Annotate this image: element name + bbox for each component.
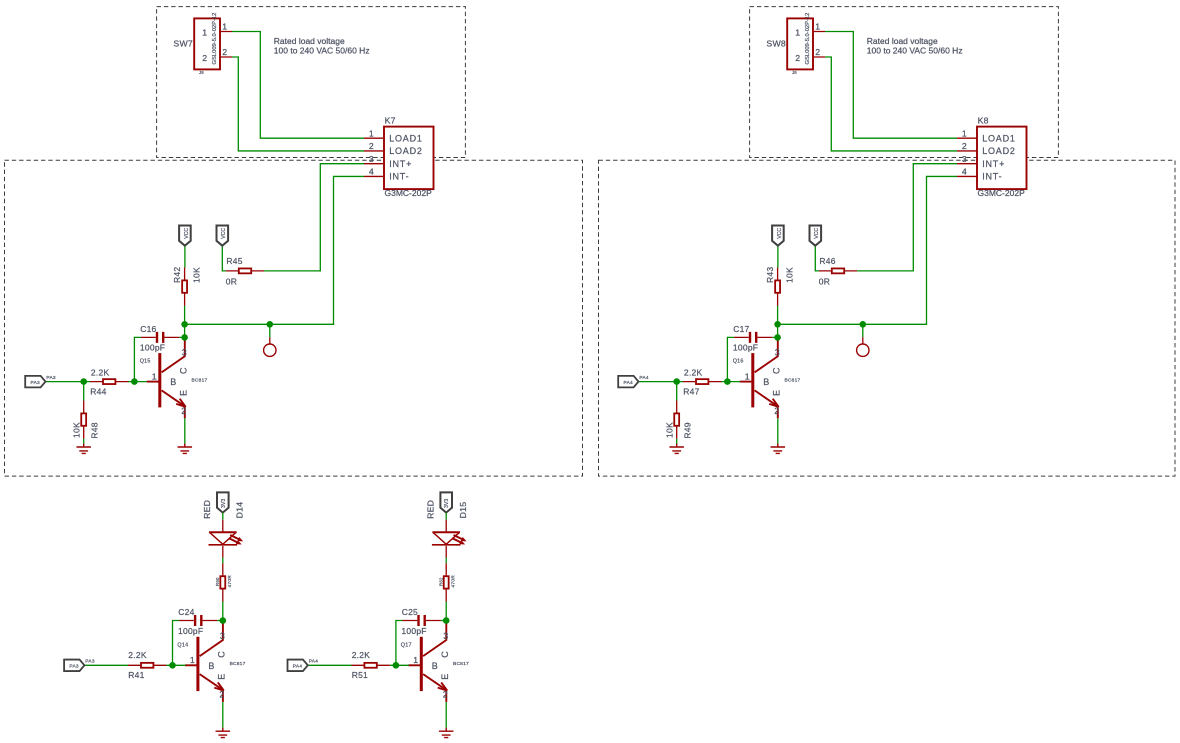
svg-text:LOAD1: LOAD1 xyxy=(982,134,1016,144)
svg-text:100 to 240 VAC 50/60 Hz: 100 to 240 VAC 50/60 Hz xyxy=(274,46,370,56)
svg-text:Rated load voltage: Rated load voltage xyxy=(274,36,345,46)
svg-text:470R: 470R xyxy=(227,575,233,588)
svg-text:RED: RED xyxy=(202,500,212,519)
svg-text:GSL009-5.0-02P-12: GSL009-5.0-02P-12 xyxy=(805,13,811,65)
svg-text:BC817: BC817 xyxy=(192,377,208,383)
svg-text:R48: R48 xyxy=(89,422,99,438)
svg-text:1: 1 xyxy=(745,371,750,381)
svg-text:B: B xyxy=(432,661,438,671)
svg-text:2.2K: 2.2K xyxy=(684,367,703,377)
svg-text:E: E xyxy=(771,390,781,396)
svg-text:INT+: INT+ xyxy=(389,159,412,169)
svg-text:R42: R42 xyxy=(172,267,182,283)
svg-text:J9: J9 xyxy=(792,70,797,75)
svg-text:J9: J9 xyxy=(199,70,204,75)
svg-text:SW7: SW7 xyxy=(173,39,193,49)
svg-text:470R: 470R xyxy=(451,575,457,588)
svg-text:3: 3 xyxy=(182,348,187,358)
svg-text:B: B xyxy=(763,377,769,387)
svg-text:R47: R47 xyxy=(683,386,699,396)
svg-text:BC817: BC817 xyxy=(785,377,801,383)
svg-text:LOAD2: LOAD2 xyxy=(982,146,1016,156)
svg-text:1: 1 xyxy=(369,128,374,138)
svg-text:100pF: 100pF xyxy=(140,342,165,352)
svg-text:B: B xyxy=(208,661,214,671)
svg-text:2: 2 xyxy=(369,141,374,151)
svg-text:INT+: INT+ xyxy=(982,159,1005,169)
svg-text:2.2K: 2.2K xyxy=(91,367,110,377)
svg-text:LOAD2: LOAD2 xyxy=(389,146,423,156)
svg-text:Rated load voltage: Rated load voltage xyxy=(867,36,938,46)
svg-text:2: 2 xyxy=(962,141,967,151)
svg-text:1: 1 xyxy=(815,21,820,31)
svg-text:0R: 0R xyxy=(819,276,830,286)
svg-text:2: 2 xyxy=(443,690,448,700)
svg-text:2.2K: 2.2K xyxy=(352,650,371,660)
svg-text:D14: D14 xyxy=(234,502,244,519)
svg-text:2: 2 xyxy=(774,406,779,416)
svg-text:4: 4 xyxy=(962,167,967,177)
svg-text:R62: R62 xyxy=(438,577,443,586)
svg-text:E: E xyxy=(440,673,450,679)
svg-text:1: 1 xyxy=(413,655,418,665)
svg-text:2.2K: 2.2K xyxy=(128,650,147,660)
svg-text:K7: K7 xyxy=(385,116,396,126)
svg-text:PA4: PA4 xyxy=(309,659,319,665)
svg-text:C16: C16 xyxy=(140,324,156,334)
svg-text:C25: C25 xyxy=(402,607,418,617)
svg-text:PA4: PA4 xyxy=(639,375,649,381)
svg-text:R45: R45 xyxy=(226,256,242,266)
svg-text:C: C xyxy=(440,651,450,658)
svg-text:Q15: Q15 xyxy=(140,358,151,364)
svg-text:3V3: 3V3 xyxy=(444,499,450,508)
svg-text:Q17: Q17 xyxy=(401,643,412,649)
svg-text:3: 3 xyxy=(443,631,448,641)
svg-text:4: 4 xyxy=(369,167,374,177)
svg-text:C: C xyxy=(179,367,189,374)
svg-text:2: 2 xyxy=(202,53,207,63)
svg-text:B: B xyxy=(170,377,176,387)
svg-text:1: 1 xyxy=(222,21,227,31)
svg-text:3: 3 xyxy=(369,154,374,164)
svg-text:100pF: 100pF xyxy=(178,626,203,636)
svg-text:PA3: PA3 xyxy=(85,659,95,665)
svg-text:10K: 10K xyxy=(784,267,794,283)
svg-text:PA3: PA3 xyxy=(69,664,79,670)
svg-text:D15: D15 xyxy=(458,502,468,519)
svg-text:10K: 10K xyxy=(71,422,81,438)
svg-text:100 to 240 VAC 50/60 Hz: 100 to 240 VAC 50/60 Hz xyxy=(867,46,963,56)
svg-text:R46: R46 xyxy=(819,256,835,266)
svg-text:GSL009-5.0-02P-12: GSL009-5.0-02P-12 xyxy=(212,13,218,65)
svg-text:RED: RED xyxy=(425,500,435,519)
svg-text:R41: R41 xyxy=(128,670,144,680)
svg-text:C: C xyxy=(772,367,782,374)
svg-text:1: 1 xyxy=(152,371,157,381)
svg-text:3V3: 3V3 xyxy=(221,499,227,508)
svg-text:0R: 0R xyxy=(226,276,237,286)
svg-text:G3MC-202P: G3MC-202P xyxy=(385,188,433,198)
svg-text:R44: R44 xyxy=(90,386,106,396)
svg-text:VCC: VCC xyxy=(184,228,190,239)
svg-text:2: 2 xyxy=(815,47,820,57)
svg-text:C17: C17 xyxy=(733,324,749,334)
svg-text:R51: R51 xyxy=(352,670,368,680)
svg-text:C: C xyxy=(217,651,227,658)
svg-text:R60: R60 xyxy=(215,577,220,586)
svg-text:1: 1 xyxy=(202,27,207,37)
svg-text:PA3: PA3 xyxy=(31,380,41,386)
svg-text:2: 2 xyxy=(219,690,224,700)
svg-text:VCC: VCC xyxy=(777,228,783,239)
svg-text:1: 1 xyxy=(962,128,967,138)
svg-text:BC817: BC817 xyxy=(230,661,246,667)
svg-text:R49: R49 xyxy=(682,422,692,438)
svg-text:E: E xyxy=(217,673,227,679)
svg-text:VCC: VCC xyxy=(814,228,820,239)
svg-text:R43: R43 xyxy=(765,267,775,283)
svg-text:3: 3 xyxy=(775,348,780,358)
svg-text:2: 2 xyxy=(222,47,227,57)
svg-text:1: 1 xyxy=(795,27,800,37)
svg-text:1: 1 xyxy=(190,655,195,665)
svg-text:E: E xyxy=(178,390,188,396)
svg-text:BC817: BC817 xyxy=(453,661,469,667)
svg-text:Q14: Q14 xyxy=(177,643,188,649)
svg-text:PA4: PA4 xyxy=(293,664,303,670)
svg-text:2: 2 xyxy=(181,406,186,416)
svg-text:K8: K8 xyxy=(978,116,989,126)
svg-text:SW8: SW8 xyxy=(766,39,786,49)
svg-text:Q16: Q16 xyxy=(733,358,744,364)
svg-text:G3MC-202P: G3MC-202P xyxy=(978,188,1026,198)
svg-text:PA4: PA4 xyxy=(624,380,634,386)
svg-text:10K: 10K xyxy=(664,422,674,438)
svg-text:10K: 10K xyxy=(191,267,201,283)
svg-text:2: 2 xyxy=(795,53,800,63)
svg-text:3: 3 xyxy=(962,154,967,164)
svg-text:INT-: INT- xyxy=(982,172,1002,182)
svg-text:3: 3 xyxy=(220,631,225,641)
svg-text:100pF: 100pF xyxy=(733,342,758,352)
svg-text:VCC: VCC xyxy=(221,228,227,239)
svg-text:PA3: PA3 xyxy=(46,375,56,381)
svg-text:INT-: INT- xyxy=(389,172,409,182)
svg-text:100pF: 100pF xyxy=(401,626,426,636)
svg-text:C24: C24 xyxy=(178,607,194,617)
svg-text:LOAD1: LOAD1 xyxy=(389,134,423,144)
